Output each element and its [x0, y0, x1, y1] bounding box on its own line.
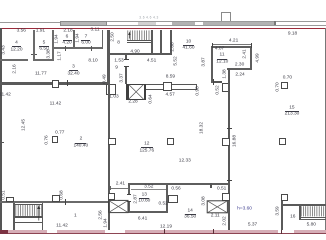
dim 6.41: [138, 216, 147, 221]
bottom band pier: [0, 230, 8, 235]
dim 11.42 clipped left: [0, 93, 11, 98]
dim 2.24: [235, 73, 244, 78]
wall below stair block: [107, 53, 172, 55]
tick on wall: [66, 80, 69, 86]
bottom band pier: [278, 230, 294, 233]
room4 label: [15, 41, 18, 46]
wall pier segment: [203, 22, 276, 25]
door tick: [127, 193, 132, 196]
room16 column box: [281, 194, 289, 201]
dim 0.51 right: [217, 187, 226, 192]
column on right spine bottom: [222, 193, 230, 201]
doorway notch outline: [221, 12, 231, 21]
room13 right wall: [166, 183, 168, 213]
column on right spine: [222, 138, 230, 146]
vertical dim 2.88: [171, 42, 176, 51]
room13 label: [142, 192, 147, 197]
room8 label: [117, 41, 120, 46]
vertical dim 1.94 room6: [54, 35, 59, 44]
elevator X cross: [129, 84, 144, 99]
vertical dim 3.37: [119, 73, 124, 82]
top facade thin line left: [0, 21, 60, 24]
corridor3 south wall right part: [59, 82, 108, 84]
column at wall: [52, 80, 59, 88]
vertical dim 0.76: [45, 135, 50, 144]
vertical dim 18.32: [200, 122, 205, 134]
dim line 3.52: [131, 188, 166, 191]
room16 stair treads: [301, 206, 324, 216]
tick on left wall: [0, 141, 4, 144]
dim 3.52: [144, 185, 153, 190]
room11 left wall: [211, 46, 213, 83]
door tick: [124, 58, 129, 61]
room13 door opening: [128, 195, 130, 201]
room9 label: [115, 66, 118, 71]
room11 bottom wall: [227, 68, 252, 70]
stair flight rails: [127, 39, 151, 42]
room13 left wall: [128, 183, 130, 213]
column room15 top with 0.70: [281, 82, 289, 90]
dim 2.30: [235, 63, 244, 68]
left exterior wall: [0, 28, 2, 230]
dim 4.07: [215, 47, 224, 52]
room15 label: [289, 105, 294, 110]
wall between room4 and room5: [33, 30, 34, 61]
bottom facade band bottom line: [0, 233, 326, 234]
stair arrow room8: [128, 32, 131, 39]
room2 label: [80, 137, 83, 142]
dim 12.33: [179, 159, 191, 164]
stair rails: [15, 215, 41, 218]
bottom band pier: [213, 229, 214, 234]
column room12: [167, 138, 174, 145]
dim 4.90: [130, 50, 139, 55]
vertical dim 3.08: [201, 196, 206, 205]
dim tick on room4 wall: [31, 53, 37, 56]
vertical dim 0.51 left: [2, 190, 7, 199]
room14 label: [188, 209, 193, 214]
spine wall right (rooms12/14 vs room15): [228, 68, 230, 230]
elevator shaft right wall: [144, 84, 147, 100]
room16 label: [290, 214, 295, 219]
notch box 0.68: [52, 195, 60, 202]
vertical dim 12.45: [21, 118, 26, 130]
red facade line: [0, 28, 326, 29]
room11 top wall: [211, 46, 252, 48]
column on spine bottom: [108, 193, 116, 201]
dim tick on wall: [64, 46, 67, 51]
junction column box: [106, 84, 116, 95]
dim 0.56: [171, 187, 180, 192]
dim 4.57: [166, 92, 175, 97]
room16 stair stringer: [299, 206, 300, 220]
vertical dim 1.38: [222, 70, 227, 79]
room11 right wall: [250, 46, 252, 70]
thin wall right of opening: [211, 81, 222, 83]
dim 0.77: [55, 130, 64, 135]
wall pier segment: [172, 22, 195, 25]
notch box left: [6, 197, 13, 202]
wall pier segment: [138, 22, 156, 25]
vertical dim 5.52: [174, 56, 179, 65]
room5 label: [43, 40, 46, 45]
door tick: [127, 200, 132, 203]
dim 11.77: [35, 72, 47, 77]
wall stub room14: [210, 183, 212, 188]
vertical dim 0.49: [102, 74, 107, 83]
room6 label: [66, 35, 69, 40]
door opening in wall: [28, 59, 33, 61]
bottom-left stair left wall: [13, 203, 15, 230]
vertical dim 2.56: [99, 211, 104, 220]
column row middle: freestanding column room2: [52, 136, 59, 143]
dim 0.52: [159, 201, 168, 206]
partition band bottom: [146, 88, 196, 91]
thick wall left of stair block: [107, 30, 110, 85]
vertical dim 3.59: [275, 206, 280, 215]
column box on partition: [163, 82, 172, 90]
dim 8.10: [88, 59, 97, 64]
vertical dim 0.64: [148, 95, 153, 104]
vertical dim 1.94 room7: [75, 34, 80, 43]
dim 9.18: [288, 31, 297, 36]
stair treads bottom-left: [15, 203, 41, 206]
room11 label: [220, 53, 225, 58]
closet box room14: [168, 195, 178, 204]
vertical dim 16.88: [232, 135, 237, 147]
elevator shaft top line: [129, 83, 144, 86]
bottom-left stair treads: [16, 204, 42, 216]
column on left spine: [108, 138, 116, 146]
room3 label: [72, 65, 75, 70]
vertical dim 0.52: [215, 85, 220, 94]
room9 right wall: [125, 55, 127, 84]
room16 stair rails: [299, 216, 325, 219]
wall between room6 and room7: [73, 30, 74, 48]
room13 bottom wall: [128, 211, 168, 213]
vertical dim 2.02: [222, 217, 227, 226]
bottom facade band fill: [0, 230, 326, 233]
dim 2.11: [211, 213, 220, 218]
room10 left wall: [170, 30, 172, 56]
bottom wall of rooms 6-7: [52, 47, 103, 49]
dim 5.80: [307, 223, 316, 228]
dim 5.37: [248, 223, 257, 228]
dim tick on wall: [90, 46, 93, 51]
dim tick 4.21 left: [211, 43, 214, 48]
spine wall left (room2 vs room12): [108, 84, 110, 229]
vertical dim 0.98: [195, 86, 200, 95]
vertical dim 4.99: [256, 53, 261, 62]
X-box left of room13: [109, 200, 128, 212]
column box: [222, 83, 230, 92]
dim 8.59: [166, 75, 175, 80]
stair enclosure wall: [151, 30, 153, 55]
room16 top wall: [283, 204, 326, 206]
vertical dim 3.87: [201, 57, 206, 66]
tick: [212, 79, 215, 85]
rooms13/14 top wall: [128, 183, 228, 185]
dim line 2.41: [111, 187, 130, 190]
dim 11.42 mid: [50, 102, 62, 107]
room16 left wall: [281, 201, 283, 230]
partition band top: [146, 83, 196, 86]
dim 4.51: [147, 58, 156, 63]
vertical dim 3.38: [46, 50, 51, 59]
dim 1.53: [114, 58, 123, 63]
spine wall tick: [227, 179, 232, 182]
dim line 4.21: [212, 43, 251, 46]
column room15 middle: [279, 138, 286, 145]
vertical dim 2.16: [13, 64, 18, 73]
vertical dim 1.94 bottom: [104, 218, 109, 227]
stair landing bottom line: [15, 221, 41, 224]
room1 north wall: [0, 201, 108, 203]
dim 11.42 bottom: [56, 224, 68, 229]
vertical dim 2.41 room11: [242, 49, 247, 58]
shaft wall: [160, 30, 162, 55]
dim 0.70 top: [283, 76, 292, 81]
dim tick 4.21 right: [250, 43, 253, 48]
dim 2.18: [63, 29, 72, 34]
wall right of room5: [52, 30, 53, 61]
dim 4.21: [229, 39, 238, 44]
vertical dim 0.70: [276, 82, 281, 91]
wall right of room7: [102, 30, 103, 49]
dim 12.19: [160, 224, 172, 229]
dim 3.56: [17, 28, 26, 33]
bottom band pier: [164, 229, 165, 234]
corridor3 south wall: [0, 82, 52, 84]
bottom wall of rooms 4-5: [0, 59, 54, 61]
dim 1.91: [36, 28, 45, 33]
room12 label: [144, 142, 149, 147]
tick on room1 wall: [64, 199, 67, 204]
elevator shaft bottom line: [129, 98, 144, 101]
vertical dim 1.17: [58, 52, 63, 61]
elevator shaft left wall: [126, 84, 129, 100]
X-box right bottom: [207, 201, 227, 213]
dim 1.03: [109, 94, 118, 99]
height note h=3.60: [237, 207, 252, 212]
partition band right cap: [195, 84, 198, 89]
room7 label: [85, 35, 88, 40]
dim 3.11: [91, 28, 100, 33]
bottom band pier: [105, 230, 125, 233]
window band outline: [107, 20, 326, 23]
vertical dim 0.68: [60, 190, 65, 199]
canopy over entrance: [60, 21, 107, 26]
door opening room9: [125, 60, 127, 66]
bottom-left stair right wall: [42, 203, 44, 230]
bottom band pier: [281, 229, 282, 234]
stair arrow bottom-left: [37, 205, 40, 221]
bottom facade band top line: [0, 229, 326, 232]
room8 stair treads: [128, 30, 152, 40]
pier end cap: [274, 21, 276, 25]
dim 2.28: [128, 99, 137, 104]
bottom band pier: [47, 230, 57, 233]
vertical dim 2.87: [133, 195, 138, 204]
spine wall tick: [227, 127, 232, 130]
tiny dim text above band: [139, 15, 158, 20]
door tick: [124, 65, 129, 68]
vertical dim 2.50: [110, 32, 115, 41]
right exterior wall: [325, 28, 326, 230]
room10 label: [186, 39, 191, 44]
room1 label: [74, 213, 77, 218]
dim 2.41: [116, 181, 125, 186]
vertical dim 3.43: [1, 45, 6, 54]
